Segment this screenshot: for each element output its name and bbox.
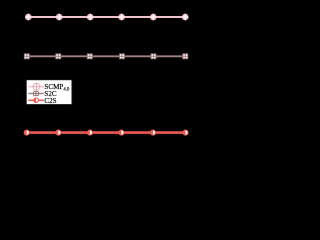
legend frame: [26, 80, 72, 105]
node: SCMP data marker 1 (circle-plus): [25, 14, 31, 20]
node: S2C data marker 2 (square-plus): [56, 54, 61, 59]
node: SCMP data marker 2 (circle-plus): [56, 14, 62, 20]
node: SCMP data marker 6 (circle-plus): [182, 14, 188, 20]
node: C2S data marker 1 (left-half-filled circle): [24, 130, 29, 135]
node: S2C data marker 4 (square-plus): [120, 54, 125, 59]
wire: C2S series polyline (bottom, red): [27, 131, 186, 134]
wire: S2C series polyline (middle, rosy brown): [27, 55, 186, 57]
node: SCMP data marker 3 (circle-plus): [87, 14, 93, 20]
node: C2S data marker 5 (left-half-filled circle): [150, 130, 155, 135]
node: C2S data marker 2 (left-half-filled circle): [56, 130, 61, 135]
node: S2C data marker 3 (square-plus): [87, 54, 92, 59]
svg-text:C2S: C2S: [44, 97, 56, 105]
legend entry 1 marker (circle-plus): [33, 83, 40, 90]
node: C2S data marker 6 (left-half-filled circle): [183, 130, 188, 135]
node: S2C data marker 6 (square-plus): [183, 54, 188, 59]
node: S2C data marker 5 (square-plus): [151, 54, 156, 59]
legend entry 2 marker (square-plus): [34, 91, 38, 95]
legend entry 3 handle line (C2S): [28, 99, 43, 101]
node: SCMP data marker 4 (circle-plus): [119, 14, 125, 20]
node: C2S data marker 3 (left-half-filled circle): [87, 130, 92, 135]
node: SCMP data marker 5 (circle-plus): [150, 14, 156, 20]
node: S2C data marker 1 (square-plus): [24, 54, 29, 59]
legend entry 1 handle line (SCMP): [28, 86, 43, 88]
legend entry 2 handle line (S2C): [28, 93, 43, 95]
wire: SCMP series polyline (top, light pink): [28, 16, 185, 18]
node: C2S data marker 4 (left-half-filled circle): [119, 130, 124, 135]
legend entry 3 marker (left-half-filled circle): [34, 98, 39, 103]
